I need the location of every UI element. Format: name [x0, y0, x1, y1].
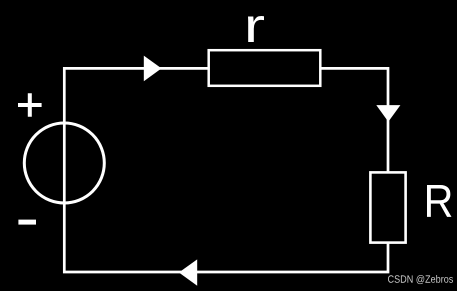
watermark CSDN @Zebros	[388, 275, 453, 284]
current arrow (top wire, pointing right)	[144, 56, 162, 82]
value label r	[248, 16, 264, 42]
wire: top-right segment down to resistor R	[322, 68, 389, 172]
value label R	[427, 185, 452, 217]
plus sign (+ terminal)	[18, 93, 42, 117]
current arrow (right wire, pointing down)	[376, 105, 400, 122]
resistor r box	[209, 50, 321, 86]
voltage source circle	[24, 123, 104, 203]
minus sign (- terminal)	[18, 220, 36, 225]
resistor R box	[370, 172, 405, 242]
wire: left vertical + top-left + bottom loop	[64, 68, 388, 272]
current arrow (bottom wire, pointing left)	[179, 259, 197, 285]
